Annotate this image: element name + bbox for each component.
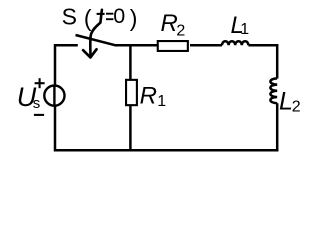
svg-text:1: 1	[157, 93, 166, 110]
switch closing arrow	[83, 10, 102, 58]
inductor L1	[222, 41, 248, 45]
wire top-left stub	[54, 44, 78, 47]
polarity minus	[34, 114, 44, 116]
svg-text:(: (	[84, 5, 92, 31]
svg-text:R: R	[140, 83, 157, 110]
wire right-bottom	[276, 103, 279, 151]
wire R2 to L1	[190, 44, 222, 47]
wire left-top	[54, 44, 57, 85]
wire top-middle (switch to R2)	[116, 44, 158, 47]
svg-text:2: 2	[292, 98, 301, 115]
svg-text:S: S	[62, 4, 77, 30]
switch S blade	[76, 35, 117, 46]
resistor R2	[158, 41, 188, 51]
voltage source US circle	[44, 86, 64, 106]
wire top-right	[248, 45, 277, 78]
voltage source US wire through	[53, 86, 55, 106]
wire R1 branch top	[129, 45, 132, 79]
svg-text:1: 1	[240, 21, 249, 38]
wire left-bottom	[54, 106, 57, 152]
svg-text:2: 2	[176, 22, 185, 39]
svg-text:R: R	[161, 10, 178, 37]
resistor R1	[126, 80, 137, 105]
wire bottom	[54, 149, 278, 152]
svg-text:): )	[130, 5, 138, 31]
wire R1 branch bottom	[129, 106, 132, 151]
svg-text:s: s	[33, 95, 41, 112]
inductor L2	[270, 78, 277, 103]
svg-text:0: 0	[113, 4, 125, 28]
polarity plus	[34, 78, 45, 115]
